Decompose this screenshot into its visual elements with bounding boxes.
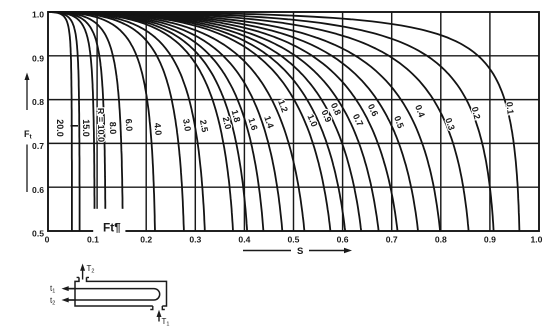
- arrow T1 up: [158, 315, 160, 322]
- svg-text:0.9: 0.9: [32, 53, 44, 63]
- label 0.6: [366, 102, 380, 118]
- label 0.5: [392, 114, 406, 129]
- svg-text:0.8: 0.8: [32, 97, 44, 107]
- x-axis title arrow: [309, 250, 345, 252]
- curve R=10: [48, 12, 95, 231]
- svg-text:0.9: 0.9: [484, 234, 496, 244]
- svg-text:0.5: 0.5: [392, 114, 406, 129]
- label 3.0: [181, 118, 193, 132]
- svg-text:1.0: 1.0: [32, 10, 44, 20]
- svg-text:0.8: 0.8: [435, 234, 447, 244]
- y-axis arrow: [26, 79, 28, 110]
- label 0.2: [470, 106, 483, 121]
- svg-text:15.0: 15.0: [81, 119, 91, 137]
- pointer dash on R=20 curve: [71, 125, 79, 127]
- svg-text:Ft: Ft: [24, 129, 33, 141]
- svg-text:2.5: 2.5: [198, 119, 210, 133]
- label 20.0: [55, 119, 65, 137]
- label 0.1: [504, 101, 515, 114]
- curve R=1: [48, 12, 330, 231]
- svg-text:0.7: 0.7: [386, 234, 398, 244]
- svg-text:0.4: 0.4: [413, 103, 427, 118]
- y-axis line segment: [26, 145, 28, 193]
- curve R=15: [48, 12, 80, 231]
- svg-text:0.3: 0.3: [189, 234, 201, 244]
- svg-text:0.6: 0.6: [366, 102, 380, 118]
- svg-text:20.0: 20.0: [55, 119, 65, 137]
- svg-text:T2: T2: [87, 264, 95, 275]
- svg-text:6.0: 6.0: [124, 118, 135, 131]
- svg-text:T1: T1: [162, 317, 170, 328]
- label 2.5: [198, 119, 210, 133]
- svg-text:Ft¶: Ft¶: [103, 221, 121, 235]
- label 1.8: [230, 109, 243, 124]
- label 0.4: [413, 103, 427, 118]
- caption white box: [93, 209, 125, 234]
- svg-text:0.4: 0.4: [238, 234, 250, 244]
- svg-text:0: 0: [45, 234, 50, 244]
- schematic tube lower pass: [66, 299, 154, 301]
- svg-text:1.0: 1.0: [531, 234, 543, 244]
- label 0.7: [351, 112, 365, 128]
- svg-text:0.3: 0.3: [443, 116, 457, 131]
- svg-text:0.2: 0.2: [140, 234, 152, 244]
- svg-text:0.1: 0.1: [87, 234, 99, 244]
- svg-text:0.1: 0.1: [504, 101, 515, 114]
- label 0.8: [329, 101, 343, 117]
- svg-text:0.2: 0.2: [470, 106, 483, 121]
- plot border: [48, 12, 539, 231]
- svg-text:t2: t2: [50, 296, 55, 307]
- curve R=0.2: [48, 12, 494, 231]
- schematic T1 nozzle: [150, 306, 165, 310]
- svg-text:3.0: 3.0: [181, 118, 193, 132]
- curve R=0.7: [48, 12, 379, 231]
- curve R=8: [48, 12, 105, 231]
- label 0.9: [319, 108, 333, 124]
- curve R=1.8: [48, 12, 247, 231]
- curve R=0.9: [48, 12, 345, 231]
- curve R=20: [48, 12, 72, 231]
- curve R=6: [48, 12, 123, 231]
- curve R=1.6: [48, 12, 263, 231]
- arrow t1 out: [66, 288, 76, 290]
- svg-text:0.5: 0.5: [32, 229, 44, 239]
- svg-text:0.7: 0.7: [32, 141, 44, 151]
- svg-text:0.5: 0.5: [288, 234, 300, 244]
- svg-text:R = 10.0: R = 10.0: [96, 108, 107, 142]
- label 4.0: [152, 122, 163, 135]
- arrow T2 up: [82, 269, 84, 280]
- arrow t2 out: [66, 299, 76, 301]
- label 1.0: [305, 113, 319, 128]
- plot grid: [48, 12, 539, 231]
- svg-text:0.7: 0.7: [351, 112, 365, 128]
- x-axis title line: [243, 250, 291, 252]
- svg-text:4.0: 4.0: [152, 122, 163, 135]
- label 1.2: [276, 98, 290, 113]
- curve R=2.5: [48, 12, 205, 231]
- curve R=4: [48, 12, 155, 231]
- schematic shell: [75, 277, 167, 306]
- label 0.3: [443, 116, 457, 131]
- label 6.0: [124, 118, 135, 131]
- curve R=1.2: [48, 12, 304, 231]
- curve R=0.4: [48, 12, 440, 231]
- label 15.0: [81, 119, 91, 137]
- curve R=0.8: [48, 12, 361, 231]
- label R = 10.0: [96, 108, 107, 142]
- schematic T2 nozzle flanges: [77, 276, 89, 278]
- curve R=0.3: [48, 12, 469, 231]
- curve R=1.4: [48, 12, 282, 231]
- label 2.0: [221, 116, 234, 131]
- schematic U-bend: [154, 289, 160, 300]
- label 8.0: [108, 122, 118, 135]
- svg-text:0.6: 0.6: [32, 185, 44, 195]
- label 1.4: [262, 114, 276, 129]
- svg-text:t1: t1: [50, 284, 55, 295]
- label 1.6: [246, 117, 259, 132]
- svg-text:S: S: [297, 246, 303, 257]
- curve R=0.5: [48, 12, 418, 231]
- curve R=2: [48, 12, 233, 231]
- curve R=0.1: [48, 12, 519, 231]
- svg-text:0.6: 0.6: [337, 234, 349, 244]
- schematic tube upper pass: [66, 288, 154, 290]
- curve R=0.6: [48, 12, 398, 231]
- curve R=3: [48, 12, 184, 231]
- svg-text:8.0: 8.0: [108, 122, 118, 135]
